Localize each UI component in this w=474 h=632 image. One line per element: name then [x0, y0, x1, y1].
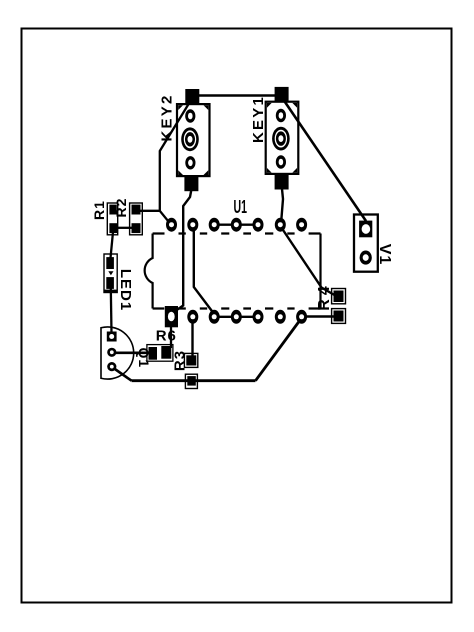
connector V1 bottom pad [360, 251, 372, 265]
pushbutton KEY1 top hole [276, 109, 286, 122]
pushbutton KEY1 bottom hole [276, 155, 286, 168]
wire KEY1 bottom pad down to U1 top pad 6 [281, 189, 283, 224]
resistor R4 bottom pad [334, 311, 344, 322]
transistor Q1 top pad (square with hole) [107, 332, 117, 342]
resistor R1 top pad [109, 205, 116, 215]
pushbutton KEY1 corner marks [267, 103, 297, 173]
wire KEY2 bottom pad down to U1 pin1 rect pad [175, 189, 192, 312]
svg-text:KEY2: KEY2 [159, 94, 176, 142]
wire trace connecting U1 bottom pads 3-4-5 [214, 316, 258, 318]
wire R2 top pad to KEY2 diagonal junction [141, 210, 161, 212]
IC U1 DIP outline with pin-1 notch [145, 234, 153, 309]
wire R1 bottom pad to R2 bottom pad [116, 227, 132, 229]
resistor R3 outline [184, 353, 197, 367]
resistor R4 outline [332, 289, 346, 304]
pushbutton KEY1 bottom pad [275, 174, 289, 190]
pushbutton KEY2 top pad [185, 89, 199, 104]
wire U1 bottom pad 7 to R4 bottom pad [303, 315, 334, 318]
pushbutton KEY2 center button rings [181, 127, 199, 151]
wire LED1 bottom pad to Q1 top pad [110, 288, 113, 333]
resistor R1 bottom pad [109, 223, 117, 233]
pushbutton KEY1 body outline [266, 102, 299, 174]
svg-text:R6: R6 [156, 328, 177, 345]
resistor R2 outline [130, 203, 143, 235]
transistor Q1 body outline [101, 327, 134, 379]
resistor R6 outline [147, 345, 173, 362]
pushbutton KEY2 top hole [185, 109, 195, 122]
svg-text:KEY1: KEY1 [250, 95, 267, 143]
svg-text:U1: U1 [233, 197, 246, 218]
wire KEY2 top pad to KEY1 top pad [192, 94, 282, 97]
svg-text:R1: R1 [91, 200, 107, 220]
wire U1 top pad 2 down and diagonal to U1 bottom pad 3 [194, 230, 214, 314]
wire Q1 bottom pad to bottom horizontal trace [112, 367, 132, 381]
IC U1 top row pads 1-7 [166, 218, 307, 232]
pushbutton KEY2 body outline [177, 104, 210, 176]
resistor R1 outline [107, 203, 117, 235]
LED LED1 top pad [106, 257, 114, 269]
wire Q1 middle pad to R6 left pad [112, 351, 150, 354]
LED LED1 bottom pad [106, 277, 114, 289]
wire KEY2 top pad diagonal down-left then to U1 pad 1 [160, 103, 190, 226]
svg-text:R2: R2 [113, 198, 129, 218]
IC U1 bottom row pads: pin1 rectangular pad then pads 2-7 [165, 306, 307, 327]
LED LED1 polarity mark [108, 271, 113, 275]
LED LED1 cathode bar [104, 290, 117, 293]
svg-text:LED1: LED1 [117, 269, 134, 311]
pushbutton KEY1 center button rings [272, 127, 290, 151]
pushbutton KEY2 bottom hole [185, 156, 195, 169]
resistor R3 bottom pad [187, 376, 196, 386]
resistor R3 top pad [186, 355, 196, 365]
connector V1 body outline [354, 215, 378, 272]
resistor R2 bottom pad [132, 223, 141, 233]
LED LED1 outline [104, 254, 117, 293]
transistor Q1 middle pad [107, 348, 116, 357]
wire U1 top pad 6 diagonal to R4 top pad [281, 227, 337, 297]
wire diagonal from horizontal trace up to U1 bottom pad 7 [256, 319, 302, 381]
connector V1 top pad (square with hole) [359, 221, 372, 238]
pushbutton KEY2 corner marks [178, 105, 208, 175]
wire bottom horizontal trace [132, 379, 256, 382]
svg-text:R3: R3 [172, 350, 189, 371]
svg-text:V1: V1 [376, 244, 393, 266]
transistor Q1 bottom pad [107, 362, 116, 371]
resistor R6 right pad [161, 346, 171, 359]
wire U1 bottom pad 2 down to R3 top pad [191, 318, 193, 357]
wire trace connecting U1 top pads 3-4-5 [214, 223, 258, 225]
resistor R6 left pad [149, 347, 158, 360]
pushbutton KEY1 top pad [275, 87, 289, 102]
wire KEY1 top pad diagonal to V1 top pad [284, 101, 366, 221]
wire R1 bottom pad to LED1 top pad [111, 232, 114, 258]
resistor R2 top pad [132, 205, 141, 215]
pushbutton KEY2 bottom pad [184, 176, 198, 191]
resistor R4 top pad [334, 291, 344, 303]
svg-text:R4: R4 [316, 282, 333, 310]
wire U1 pin1 rect pad down to R6 right pad [170, 325, 172, 348]
